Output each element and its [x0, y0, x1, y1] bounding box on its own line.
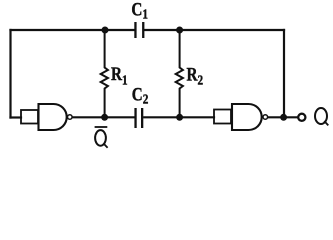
capacitor C1	[134, 22, 144, 38]
wire C2 to right gate input	[144, 116, 214, 118]
label Q	[315, 108, 328, 125]
label Qbar overline	[95, 126, 108, 128]
wire left vertical	[9, 30, 11, 118]
capacitor C2	[134, 108, 143, 128]
wire top rail left segment	[11, 29, 135, 31]
label Qbar text	[95, 130, 108, 148]
wire right vertical	[283, 30, 285, 117]
nand gate U1 body	[39, 104, 67, 130]
node junction dot R2 top	[176, 27, 183, 34]
nand gate U1 input tie rectangle	[21, 110, 38, 124]
node junction dot Q	[280, 114, 287, 121]
wire bottom left stub into gate input	[11, 116, 22, 118]
resistor R1	[101, 30, 108, 117]
nand gate U1 output bubble	[68, 115, 73, 120]
nand gate U2 output bubble	[263, 115, 268, 120]
nand gate U2 input tie rectangle	[214, 110, 231, 124]
wire top rail right segment	[144, 29, 284, 31]
resistor R2	[176, 30, 183, 117]
terminal Q open circle	[298, 114, 305, 121]
node junction dot R1 bottom / Qbar	[101, 114, 108, 121]
wire left gate output to C2	[72, 116, 134, 118]
wire right gate output to Q terminal	[268, 116, 298, 118]
node junction dot R2 bottom	[176, 114, 183, 121]
node junction dot R1 top	[102, 27, 109, 34]
nand gate U2 body	[232, 104, 262, 130]
